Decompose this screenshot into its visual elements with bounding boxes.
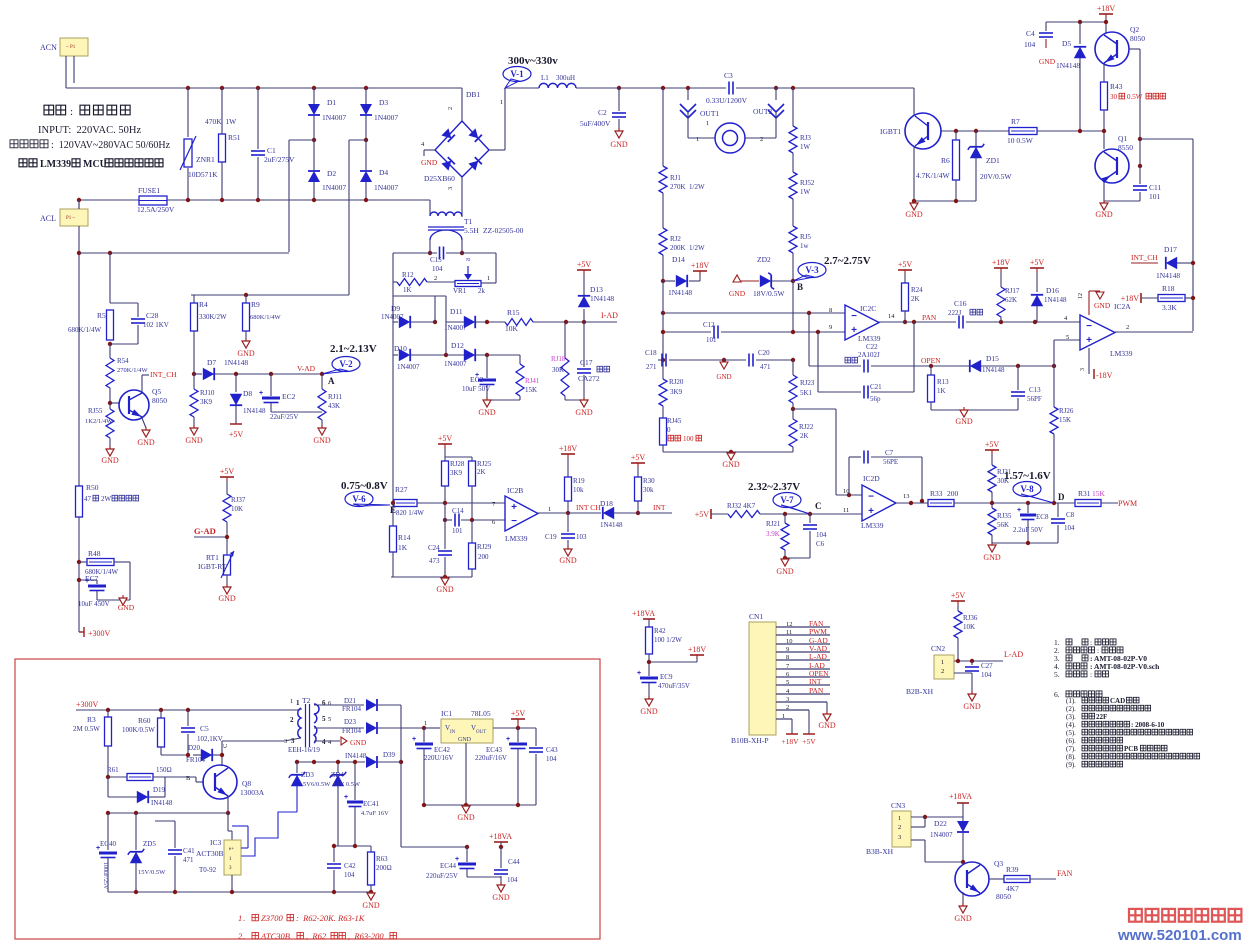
capacitor EC3 10uF 50V [486,355,488,378]
svg-text:C20: C20 [758,349,770,357]
wire Q1 base node to right bus [1138,137,1142,141]
CN1 pin 6 OPEN [776,676,830,678]
svg-text:IN4148: IN4148 [151,799,173,807]
power +18V R18 [1140,293,1142,303]
svg-text:GND: GND [458,737,472,743]
resistor RJ18 30K [564,322,566,358]
svg-text:ZZ-02505-00: ZZ-02505-00 [483,226,524,235]
svg-text:1: 1 [782,713,785,720]
capacitor C22 2A102J [808,313,810,366]
thermistor RT1 IGBT-RT [224,555,231,575]
wire T2 pin5 to D23 [314,727,364,729]
svg-text:EC8: EC8 [1036,513,1049,521]
power +5V RJ28 RJ25 [438,443,452,445]
svg-text:GND: GND [237,349,255,358]
svg-text:GND: GND [457,813,475,822]
svg-text:C3: C3 [724,71,733,80]
svg-text:2.7~2.75V: 2.7~2.75V [824,255,871,267]
svg-text:1K: 1K [398,543,408,552]
text note 标注：电源输入 [44,105,54,115]
svg-text:V-8: V-8 [1020,484,1034,494]
inductor L1 300uH [505,87,539,89]
svg-text:1: 1 [424,720,427,727]
resistor RJ37 10K [223,494,231,522]
svg-text:+: + [412,736,416,743]
svg-text:101: 101 [1149,192,1161,201]
svg-text:1K: 1K [403,286,412,294]
svg-text:+18VA: +18VA [632,609,655,618]
svg-text:56PE: 56PE [883,458,898,466]
svg-text:IGBT-RT: IGBT-RT [198,562,227,571]
watermark text chinese [1129,909,1142,922]
svg-text:RJ35: RJ35 [997,512,1012,520]
svg-text:R51: R51 [228,133,241,142]
resistor R14 1K [392,503,394,526]
svg-text:6: 6 [328,700,332,707]
svg-text:1N4148: 1N4148 [590,294,614,303]
svg-text:+18V: +18V [1121,294,1140,303]
svg-text:RJ29: RJ29 [477,543,492,551]
svg-text:V-2: V-2 [339,359,353,369]
wire Q8 emitter [227,797,229,813]
wire Q2 base to Q1 base [1129,48,1140,50]
svg-text:RJ32 4K7: RJ32 4K7 [727,502,756,510]
svg-text:2: 2 [786,704,789,711]
svg-text:43K: 43K [328,402,340,410]
svg-text:0.5W: 0.5W [1127,93,1143,101]
varistor ZNR1 [187,88,189,137]
svg-text:2k: 2k [478,287,486,295]
svg-text:200: 200 [478,553,489,561]
svg-text:INT_CH: INT_CH [1131,253,1158,262]
ground RJ10 [190,428,198,435]
svg-text:1: 1 [296,699,300,707]
svg-text:+18VA: +18VA [489,832,512,841]
svg-text:C: C [222,744,229,748]
power +5V RJ32 [710,509,712,519]
svg-text:C27: C27 [981,662,993,670]
svg-text:ZNR1: ZNR1 [196,155,215,164]
svg-text:, R63-200: , R63-200 [348,931,384,941]
svg-text:100K/0.5W: 100K/0.5W [122,726,155,734]
svg-text:(9).: (9). [1066,761,1076,769]
capacitor C5 102.1KV [187,710,189,726]
svg-text:2: 2 [941,668,944,675]
capacitor C20 471 [724,359,746,361]
svg-text:R31: R31 [1078,489,1091,498]
resistor RJ5 1w [789,226,797,253]
coil OUT2 chevrons [775,88,777,100]
svg-text::: : [70,106,73,118]
power +5V IC1 out [493,727,536,729]
svg-text:1N4007: 1N4007 [322,183,346,192]
svg-text:C42: C42 [344,862,356,870]
wire gnd rail IC2B [391,576,472,578]
svg-text:ACN: ACN [40,43,57,52]
wire rail C2 to C3 [619,87,726,89]
capacitor C3 0.33U/1200V [728,82,730,95]
svg-text:4: 4 [328,739,332,746]
resistor R54 270K/1/4W [109,344,111,358]
svg-text:−: − [511,516,517,527]
power -18V IC2A pin3 [1088,348,1090,374]
svg-text:PAN: PAN [922,313,937,322]
resistor RJ41 15K [519,355,521,364]
svg-text:10D571K: 10D571K [188,170,218,179]
svg-text:RJ22: RJ22 [799,423,814,431]
svg-text:470uF/35V: 470uF/35V [658,682,690,690]
svg-text:8050: 8050 [152,396,167,405]
svg-text:C5: C5 [200,724,209,733]
resistor R9 680K/1/4W [245,295,247,303]
svg-text:1: 1 [487,275,490,282]
svg-text:RJ10: RJ10 [200,389,215,397]
svg-text:8: 8 [786,654,789,661]
resistor R60 100K/0.5W [160,710,162,718]
svg-text:D25XB60: D25XB60 [424,174,455,183]
svg-text:(7).: (7). [1066,745,1076,753]
resistor R5 680K/1/4W parallel C28 [110,302,138,304]
svg-text:1N4148: 1N4148 [982,366,1005,374]
svg-text:D39: D39 [383,751,396,759]
capacitor EC43 220uF/16V [517,728,519,742]
svg-text:RJ18: RJ18 [551,355,566,363]
svg-text:300v~330v: 300v~330v [508,55,558,67]
diode D39 IN4148 [314,761,365,763]
resistor RJ32 4K7 [728,511,760,518]
svg-text:101: 101 [452,527,463,535]
svg-text:GND: GND [905,210,923,219]
svg-text:270K 1/2W: 270K 1/2W [670,183,705,191]
svg-text:RJ3: RJ3 [800,134,811,142]
svg-text:12: 12 [1078,293,1084,299]
svg-text:11: 11 [786,629,792,636]
capacitor C27 104 [971,661,973,665]
svg-text:0.75~0.8V: 0.75~0.8V [341,480,388,492]
svg-text:D16: D16 [1046,286,1059,295]
svg-text:3: 3 [1080,368,1086,371]
diode D7 1N4148 [192,372,196,376]
zener ZD4 13V/0.5W [337,762,339,773]
wire ZD5 EC40 rail [108,812,228,814]
svg-text:+5V: +5V [695,510,710,519]
resistor RJ11 43K [321,374,323,389]
svg-text:1N4148: 1N4148 [224,358,248,367]
svg-text:1N4007: 1N4007 [930,831,953,839]
svg-text:FR104: FR104 [342,727,362,735]
power +5V RJ37 [220,476,234,478]
svg-text:1N4148: 1N4148 [1156,271,1180,280]
svg-text:R18: R18 [1162,284,1175,293]
svg-text:D10: D10 [394,344,407,353]
svg-text:3: 3 [291,737,295,745]
ground EC7 [119,598,127,605]
svg-text:OUT1: OUT1 [700,109,719,118]
resistor RJ2 200K 1/2W [659,228,667,255]
svg-text:RJ25: RJ25 [477,460,492,468]
svg-text:D18: D18 [600,499,613,508]
op-amp IC2C LM339 [845,305,879,340]
svg-text:R14: R14 [398,533,411,542]
svg-text:102,1KV: 102,1KV [197,735,223,743]
CN1 pin 9 V-AD [776,651,830,653]
CN1 pin 8 L-AD [776,659,830,661]
svg-text:+: + [259,390,263,397]
svg-text:200: 200 [947,489,959,498]
svg-text:3K9: 3K9 [450,469,463,477]
svg-text:C44: C44 [508,858,520,866]
svg-text:: R62-20K. R63-1K: : R62-20K. R63-1K [296,913,366,923]
svg-text:150Ω: 150Ω [156,766,172,774]
svg-text:1N4007: 1N4007 [381,313,404,321]
svg-text:GND: GND [313,436,331,445]
svg-text:330K/2W: 330K/2W [199,313,227,321]
wire input bus lower [663,331,711,333]
svg-text:15K: 15K [1059,416,1071,424]
ground C17 [580,400,588,407]
svg-text:104: 104 [344,871,355,879]
resistor R7 10 0.5W [1009,128,1037,135]
svg-text:56PF: 56PF [1027,395,1042,403]
svg-text:RJ20: RJ20 [669,378,684,386]
svg-text:GND: GND [350,738,367,747]
svg-text:C16: C16 [954,299,967,308]
wire IC2D output [896,502,928,504]
svg-text:C43: C43 [546,746,558,754]
svg-text:+: + [868,506,874,517]
svg-text:FAN: FAN [1057,869,1073,878]
capacitor EC41 4.7uF 16V [354,762,356,800]
capacitor C41 471 [174,821,176,848]
svg-text:VR1: VR1 [453,287,467,295]
svg-text:14: 14 [888,313,895,320]
svg-text:L-AD: L-AD [809,652,827,661]
svg-text:GND: GND [118,603,135,612]
svg-text:IN: IN [450,730,456,735]
svg-text:Q5: Q5 [152,387,161,396]
svg-text:2uF/275V: 2uF/275V [264,155,295,164]
svg-text:1: 1 [548,506,551,513]
power +5V RJ36 [951,600,965,602]
svg-text:D9: D9 [391,304,400,313]
svg-text:B3B-XH: B3B-XH [866,847,894,856]
svg-text:G-AD: G-AD [194,526,216,536]
svg-text:-18V: -18V [1096,371,1113,380]
svg-text:EC43: EC43 [486,746,502,754]
svg-text:9: 9 [829,324,832,331]
svg-text:OUT2: OUT2 [753,107,772,116]
resistor R50 47ohm 2W [76,486,83,517]
ground Q5 emitter [142,418,146,428]
svg-text:680K/1/4W: 680K/1/4W [68,326,101,334]
ground C27 [968,694,976,701]
diode D5 1N4148 [1079,22,1081,44]
svg-text:: AMT-08-02P-V0.sch: : AMT-08-02P-V0.sch [1090,662,1160,671]
ground R9 [242,341,250,348]
svg-text:104: 104 [546,755,557,763]
wire input bus upper [663,312,845,314]
wire T2 pin4 GND [314,740,340,742]
capacitor C42 104 [333,846,335,862]
ground IC2B rail [441,578,449,585]
resistor R63 200 [370,846,372,852]
wire VR1 box to D9 junction [434,296,436,322]
net label G-AD [194,536,227,538]
svg-text:0.33U/1200V: 0.33U/1200V [706,96,748,105]
svg-text:INT: INT [653,503,666,512]
svg-text:GND: GND [492,893,510,902]
ground IC1 [462,806,470,813]
svg-text:2K: 2K [800,432,809,440]
svg-text:C11: C11 [1149,183,1161,192]
svg-text:C13: C13 [1029,386,1041,394]
svg-text:GND: GND [954,914,972,923]
connector ACN [60,38,88,56]
diode D14 1N4148 [663,280,675,282]
svg-text:1: 1 [706,120,709,127]
svg-text:EC40: EC40 [100,840,116,848]
svg-text:(8).: (8). [1066,753,1076,761]
resistor RJ22 2K [789,419,797,447]
svg-text:IC2B: IC2B [507,486,523,495]
diode D10 1N4007 [393,354,398,356]
svg-text:4: 4 [322,738,326,746]
resistor R15 10K [505,319,533,326]
svg-text:I-AD: I-AD [601,311,618,320]
svg-text:(2).: (2). [1066,705,1076,713]
CN1 pin 4 PAN [776,693,830,695]
svg-text:2.32~2.37V: 2.32~2.37V [748,481,800,493]
node D3 D4 junction [364,138,368,142]
svg-text::: : [1090,670,1092,679]
svg-text:OPEN: OPEN [921,356,941,365]
node R43 R7 D5 Q1 [1102,129,1106,133]
wire T2 pin3 to Q8 collector [221,741,223,766]
svg-text:V-7: V-7 [780,495,794,505]
svg-text:IC3: IC3 [210,838,222,847]
capacitor C21 56p [817,332,819,392]
capacitor C6 104 [809,514,811,523]
svg-text:30k: 30k [643,486,654,494]
ground stub at ZD2 [733,275,741,282]
resistor R48 680K/1/4W [79,561,87,563]
capacitor EC7 10uF 450V [77,578,81,582]
svg-text:RJ1: RJ1 [670,174,681,182]
svg-text:+5V: +5V [951,591,966,600]
svg-text:104: 104 [1024,40,1036,49]
resistor R51 [221,88,223,134]
svg-text:−: − [851,311,857,322]
CN1 pin 11 PWM [776,634,830,636]
capacitor EC42 220U/16V [423,728,425,742]
ground R13 [960,410,968,417]
resistor RJ55 1K2/1/4W [106,409,114,438]
svg-text:RJ23: RJ23 [800,379,815,387]
resistor RJ31 30K [988,465,996,492]
svg-text:1N4007: 1N4007 [374,113,398,122]
svg-text:IC2A: IC2A [1114,302,1131,311]
svg-text:13: 13 [903,493,910,500]
svg-text:D14: D14 [672,255,685,264]
svg-text:20V/0.5W: 20V/0.5W [980,172,1012,181]
svg-text:ACL: ACL [40,214,56,223]
svg-text:R6: R6 [941,156,950,165]
transistor Q1 8550 [1095,149,1129,183]
svg-text:+5V: +5V [229,430,244,439]
diode D16 1N4148 [1030,267,1044,269]
zener ZD3 5V6/0.5W [296,762,298,773]
svg-text:+: + [1086,335,1092,346]
wire CN3 net to Q3 [962,862,964,865]
ground Q3 [962,892,964,906]
svg-text:R4: R4 [199,300,208,309]
svg-text:T1: T1 [464,217,473,226]
svg-text:RJ41: RJ41 [525,377,540,385]
text note input range [10,140,18,148]
svg-text:GND: GND [776,567,794,576]
svg-text:1N4148: 1N4148 [243,407,266,415]
svg-text:1: 1 [696,136,699,143]
svg-text:CN2: CN2 [931,644,945,653]
wire IC2C output PAN [879,321,956,323]
svg-text:470K 1W: 470K 1W [205,117,237,126]
wire bottom rail power box [108,891,371,893]
svg-text:CAD: CAD [1110,697,1125,705]
transistor Q8 13003A [203,765,237,799]
svg-text:22F: 22F [1096,713,1107,721]
svg-text:10 0.5W: 10 0.5W [1007,136,1034,145]
svg-text:1: 1 [238,913,242,923]
svg-text:3K9: 3K9 [670,388,683,396]
capacitor C44 104 [500,847,502,868]
svg-text:GND: GND [716,373,731,381]
svg-text:+18V: +18V [691,261,710,270]
svg-text:GND: GND [101,456,119,465]
svg-text:GND: GND [1094,301,1111,310]
svg-text:Q8: Q8 [242,779,251,788]
induction coil plate [715,123,745,153]
bridge rectifier DB1 D25XB60 [435,121,489,177]
svg-text:100 1/2W: 100 1/2W [654,636,682,644]
svg-text:GND: GND [1039,57,1056,66]
svg-text:C18: C18 [645,349,657,357]
svg-text:IGBT1: IGBT1 [880,127,901,136]
svg-text:ACT30B: ACT30B [196,849,224,858]
svg-text:Q2: Q2 [1130,25,1139,34]
svg-text:L-AD: L-AD [1004,650,1023,659]
op-amp IC2D LM339 [862,485,896,521]
resistor R61 150 [108,776,127,778]
svg-text:GND: GND [983,553,1001,562]
svg-text:4: 4 [1064,315,1068,322]
svg-text:RJ11: RJ11 [328,393,343,401]
svg-text:PCB: PCB [1124,745,1138,753]
zener ZD2 18V/0.5W [760,275,771,287]
svg-text:IC2C: IC2C [860,304,876,313]
wire RJ22 RJ23 column [792,360,794,375]
node A [320,372,324,376]
svg-text:1K: 1K [937,387,946,395]
capacitor C18 271 [658,359,663,361]
diode D18 1N4148 [603,507,614,519]
wire CN3 pins [911,816,963,818]
svg-text:56K: 56K [997,521,1009,529]
svg-text:5K1: 5K1 [800,389,813,397]
svg-text:15V/0.5W: 15V/0.5W [138,869,166,876]
resistor R31 15K [1075,500,1101,507]
svg-text:R48: R48 [88,549,101,558]
wire branch D3D4 to R4 net [349,139,366,141]
